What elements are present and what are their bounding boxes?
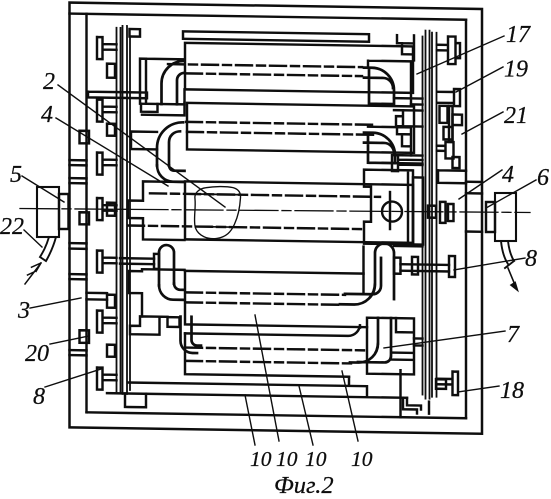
svg-text:6: 6 (537, 165, 549, 191)
row4 left header stepped (129, 269, 185, 317)
left nuts (107, 64, 115, 357)
blob interior solid lines (195, 194, 241, 227)
right flange row1-2 (438, 89, 460, 106)
circle symbol (382, 201, 402, 221)
right flange at band (438, 170, 466, 183)
leader 4 right (459, 170, 502, 199)
row2 left down-bend from dash (157, 122, 183, 166)
bottom right small rect (436, 379, 446, 389)
svg-text:8: 8 (525, 246, 537, 272)
tube row 3 dashes (128, 193, 380, 229)
main sheared drawing group (70, 3, 483, 434)
svg-text:Фиг.2: Фиг.2 (274, 472, 334, 499)
tube row 4 dashes (186, 292, 345, 304)
right row4 mid bar (412, 257, 418, 275)
left band dividers (70, 160, 87, 355)
right bolt rows2-3 (437, 142, 454, 159)
right row4 flange (394, 258, 401, 274)
svg-text:22: 22 (0, 214, 24, 240)
leader 20 (50, 336, 89, 344)
left hose (40, 237, 56, 261)
svg-text:21: 21 (504, 103, 528, 129)
leader 2 (58, 85, 225, 207)
right small rect near centerline (428, 206, 436, 218)
leader 4 left (56, 118, 168, 186)
left plate column (117, 26, 131, 394)
row3-4 left rod (120, 258, 154, 264)
right cluster rects (440, 106, 448, 123)
left box connector (59, 194, 69, 229)
svg-text:10: 10 (276, 447, 298, 471)
right hose (501, 241, 514, 268)
row1 right neck (394, 98, 423, 110)
row3-4 left rod bar (154, 254, 159, 269)
svg-text:8: 8 (33, 384, 45, 410)
leader 10d (342, 371, 358, 441)
svg-text:5: 5 (10, 162, 22, 188)
right row4 dome pipe (340, 243, 394, 305)
row2 left hook into row3 header (157, 165, 185, 181)
bottom left plate foot (125, 393, 146, 407)
svg-text:10: 10 (250, 447, 272, 471)
leader 6 (486, 180, 536, 208)
tube row 1 dashes (168, 64, 362, 76)
left inner vertical (85, 14, 87, 413)
row2 right neck (395, 155, 423, 163)
right row5 rod to plates (414, 338, 423, 345)
left outer box (37, 187, 59, 237)
tube row 3 casing (185, 181, 413, 243)
tube row 1 casing (185, 43, 413, 93)
svg-text:7: 7 (507, 322, 520, 348)
svg-text:18: 18 (500, 378, 524, 404)
centerline axis row3 (20, 209, 530, 213)
elbow row1 left down-bend (162, 61, 185, 105)
row1 left foot block (141, 104, 158, 112)
tube row 5 casing top with up-bend (185, 321, 360, 336)
leader 21 (462, 112, 503, 134)
right plate column (423, 31, 437, 399)
leader 8 left (45, 369, 101, 387)
row5 left header steps (130, 316, 168, 335)
row2 right socket bend (364, 133, 395, 163)
left bolts (97, 37, 117, 390)
row3 header bottom extension (394, 245, 423, 248)
tube row 5 dashes (186, 348, 364, 364)
row1 right socket bend (364, 68, 394, 104)
bottom inner line (87, 412, 467, 418)
left header row1 (140, 59, 185, 105)
leader 18 (458, 386, 499, 392)
right row5 up-bend pipe (350, 317, 391, 363)
row3-4 left hook into row4 (159, 283, 185, 299)
svg-text:4: 4 (41, 102, 53, 128)
svg-text:17: 17 (506, 22, 531, 48)
right box connector (486, 202, 495, 232)
svg-text:10: 10 (305, 447, 327, 471)
right header row1 top steps (397, 35, 414, 60)
leader 3 (30, 298, 81, 308)
leader 10a (245, 395, 255, 445)
leader 7 (384, 331, 505, 348)
top left step (130, 29, 141, 37)
right bolts (437, 36, 461, 395)
right inner vertical (465, 20, 467, 419)
right cluster row2 tall bar (449, 106, 453, 142)
right bolt left-pointing rows2-3 (392, 155, 423, 171)
bottom right bracket (403, 398, 429, 414)
svg-text:10: 10 (351, 447, 373, 471)
right row4 T-bar (449, 256, 455, 277)
svg-text:20: 20 (25, 341, 49, 367)
row2 left header edge (142, 102, 185, 115)
row3 left header stepped (128, 181, 185, 240)
right band dividers (466, 182, 482, 232)
tube row 2 casing (187, 103, 414, 153)
right arrow (508, 268, 515, 285)
right header row2 (368, 127, 411, 156)
left flange bar row1-2 (88, 92, 147, 99)
leader 8 right (454, 258, 525, 270)
right header row3 stepped (364, 170, 413, 245)
tube row 4 casing top (185, 271, 364, 274)
tube row 4 casing bottom and left wall (185, 271, 367, 327)
row2 left block (131, 132, 157, 150)
row3-4 left dome pipe (159, 245, 174, 286)
svg-text:3: 3 (17, 298, 30, 324)
row4-5 left pipe into row5 (181, 317, 202, 354)
circle vertical line (389, 192, 391, 229)
blob (194, 186, 240, 239)
leader 10c (299, 386, 313, 445)
tube row 5 casing bottom and left wall (185, 333, 349, 376)
top inner line (70, 14, 467, 20)
row4-5 left flange (168, 317, 180, 327)
outer frame (70, 3, 483, 434)
right row4 T-rod (401, 264, 450, 271)
leader 22 (24, 230, 42, 247)
leader 5 (22, 176, 64, 202)
leader 19 (456, 67, 503, 92)
bottom staircase lines (107, 373, 407, 398)
svg-text:2: 2 (43, 69, 55, 95)
top plate (183, 31, 369, 41)
left band edge blocks (80, 131, 90, 343)
svg-text:4: 4 (502, 162, 514, 188)
row 4 right vertical wall (362, 247, 364, 294)
svg-text:19: 19 (504, 57, 528, 83)
tube row 2 dashes (186, 122, 376, 135)
leader 17 (417, 36, 504, 74)
left band stem (87, 293, 108, 300)
right row3 end plate (413, 177, 423, 244)
right outer box (495, 193, 516, 241)
right small rect below (453, 157, 460, 168)
right header row1 (368, 61, 411, 105)
right block rows1-2 (396, 110, 423, 126)
leader 10b (255, 315, 279, 441)
left arrow (25, 263, 41, 284)
right row5 block (367, 318, 414, 375)
bottom right vertical (399, 370, 401, 417)
